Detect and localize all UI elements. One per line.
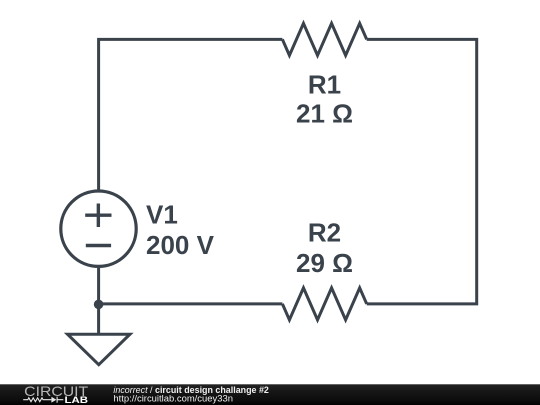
voltage source V1 [61,191,136,266]
svg-text:R1: R1 [308,70,341,100]
wire from V1 bottom to ground [97,266,100,334]
resistor R2 [282,288,366,320]
wire from V1 top to R1 left (top-left corner) [99,39,283,191]
svg-text:200 V: 200 V [146,230,215,260]
wire from R1 right to bottom-right corner to R2 right [367,39,477,304]
svg-text:21 Ω: 21 Ω [296,99,353,129]
wire from R2 left to node [99,302,283,305]
svg-text:V1: V1 [146,200,178,230]
footer bar [0,384,540,405]
svg-text:R2: R2 [308,218,341,248]
resistor R1 [282,23,366,55]
svg-text:29 Ω: 29 Ω [296,248,353,278]
logo resistor-diode icon [23,397,63,403]
ground [68,334,131,365]
svg-text:http://circuitlab.com/cuey33n: http://circuitlab.com/cuey33n [113,394,233,404]
svg-text:LAB: LAB [65,395,89,405]
node junction dot [94,300,104,310]
